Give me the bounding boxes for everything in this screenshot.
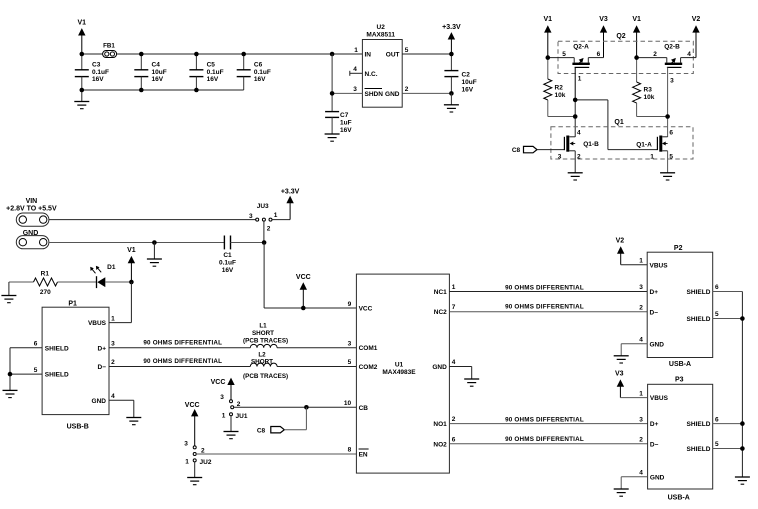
LED D1 <box>90 264 131 288</box>
svg-text:COM2: COM2 <box>359 364 378 371</box>
svg-text:U2: U2 <box>377 24 386 31</box>
resistor R1 270 <box>9 271 97 296</box>
ground under JU1 <box>224 432 239 439</box>
svg-text:D+: D+ <box>650 289 659 296</box>
svg-text:2: 2 <box>577 153 581 160</box>
power symbol V1 (Q2-B) <box>632 16 641 57</box>
svg-text:5: 5 <box>669 153 673 160</box>
junction dot JU3 pin2 node <box>262 240 267 245</box>
svg-text:0.1uF: 0.1uF <box>92 69 109 76</box>
svg-text:10uF: 10uF <box>152 69 167 76</box>
svg-text:SHIELD: SHIELD <box>45 345 69 352</box>
svg-text:NO2: NO2 <box>433 441 447 448</box>
svg-text:6: 6 <box>669 130 673 137</box>
svg-text:4: 4 <box>687 51 691 58</box>
junction dot R3 / Q2-B gate / Q1-A drain <box>665 114 670 137</box>
svg-text:2: 2 <box>639 436 643 443</box>
svg-text:4: 4 <box>353 66 357 73</box>
junction dot SHDN/C7 <box>330 91 335 96</box>
svg-text:D−: D− <box>650 441 659 448</box>
svg-text:4: 4 <box>577 130 581 137</box>
svg-text:2: 2 <box>201 447 205 454</box>
svg-text:CB: CB <box>359 405 369 412</box>
P3 pin 5 SHIELD wire <box>687 441 743 453</box>
svg-text:3: 3 <box>111 340 115 347</box>
svg-text:5: 5 <box>715 441 719 448</box>
svg-text:USB-B: USB-B <box>67 424 89 431</box>
dashed box Q1 <box>551 119 693 159</box>
wire: shield bus right <box>740 292 745 478</box>
svg-text:2: 2 <box>267 225 271 232</box>
wire: GND rail to C1 <box>49 242 225 244</box>
power symbol VCC (U1 supply) <box>296 274 311 308</box>
svg-text:C7: C7 <box>340 112 349 119</box>
connector P1 box <box>42 300 109 430</box>
svg-text:90 OHMS DIFFERENTIAL: 90 OHMS DIFFERENTIAL <box>143 358 222 365</box>
P1 pin 5 SHIELD wire <box>10 367 69 379</box>
svg-text:5: 5 <box>348 359 352 366</box>
P2 pin 6 SHIELD wire <box>687 284 743 296</box>
svg-text:3: 3 <box>353 86 357 93</box>
svg-text:4: 4 <box>452 359 456 366</box>
svg-text:VCC: VCC <box>185 402 200 409</box>
svg-text:NO1: NO1 <box>433 421 447 428</box>
junction dots OUT node <box>449 52 454 96</box>
svg-text:2: 2 <box>405 86 409 93</box>
svg-text:0.1uF: 0.1uF <box>219 259 236 266</box>
svg-text:+2.8V TO +5.5V: +2.8V TO +5.5V <box>6 206 57 213</box>
svg-text:SHORT: SHORT <box>251 358 273 365</box>
svg-text:+3.3V: +3.3V <box>442 24 461 31</box>
wire: VCC feed down and right to U1 pin 9 <box>264 243 356 311</box>
svg-text:V3: V3 <box>615 371 624 378</box>
svg-text:V1: V1 <box>127 247 136 254</box>
svg-text:VBUS: VBUS <box>650 395 669 402</box>
ferrite bead FB1 <box>103 43 117 58</box>
power symbol V2 <box>692 16 701 57</box>
U1 pin 2 NO1 <box>433 416 455 428</box>
P2 pin 5 SHIELD wire <box>687 311 743 323</box>
svg-text:6: 6 <box>452 437 456 444</box>
svg-text:VCC: VCC <box>211 379 226 386</box>
svg-text:10: 10 <box>344 400 352 407</box>
svg-text:P2: P2 <box>674 245 683 252</box>
svg-text:270: 270 <box>40 289 51 296</box>
transistor Q2-A <box>548 44 604 100</box>
power symbol VCC (JU2) <box>185 402 200 446</box>
ground shield bus <box>735 477 750 484</box>
svg-text:MAX4983E: MAX4983E <box>382 369 416 376</box>
U1 pin 10 CB <box>344 400 368 412</box>
input flag C8 (bottom) <box>257 407 307 434</box>
svg-text:D−: D− <box>98 364 107 371</box>
input flag C8 (top right) <box>512 146 565 154</box>
svg-text:SHIELD: SHIELD <box>687 446 711 453</box>
svg-text:5: 5 <box>405 47 409 54</box>
svg-text:JU3: JU3 <box>257 203 269 210</box>
wire NO2 90 ohms differential <box>449 436 647 444</box>
svg-text:1: 1 <box>578 76 582 83</box>
svg-text:1: 1 <box>185 459 189 466</box>
svg-text:V2: V2 <box>692 16 701 23</box>
resistor R2 10k <box>544 58 575 117</box>
svg-text:C8: C8 <box>512 147 521 154</box>
svg-text:C4: C4 <box>152 62 161 69</box>
ground under Q1-B <box>568 173 583 180</box>
power symbol V2 (P2) <box>616 238 625 265</box>
capacitor C5 <box>189 54 223 90</box>
svg-text:V1: V1 <box>544 16 553 23</box>
svg-text:D−: D− <box>650 309 659 316</box>
svg-text:16V: 16V <box>222 267 234 274</box>
power symbol V3 <box>599 16 608 57</box>
svg-text:6: 6 <box>597 51 601 58</box>
connector P3 box <box>648 377 713 502</box>
svg-text:JU1: JU1 <box>236 413 248 420</box>
transistor Q2-B <box>637 44 696 117</box>
svg-text:D1: D1 <box>107 264 116 271</box>
svg-text:8: 8 <box>348 447 352 454</box>
svg-text:90 OHMS DIFFERENTIAL: 90 OHMS DIFFERENTIAL <box>505 436 584 443</box>
svg-text:C2: C2 <box>462 72 471 79</box>
P1 pin 3 D+ <box>98 340 116 352</box>
svg-text:VIN: VIN <box>26 198 38 205</box>
wire: Q2-A gate to Q1-A gate cross-coupling <box>575 100 657 150</box>
svg-text:GND: GND <box>650 341 665 348</box>
junction dot D1/V1/VBUS <box>129 280 134 323</box>
svg-text:1: 1 <box>111 315 115 322</box>
svg-text:3: 3 <box>639 416 643 423</box>
svg-text:16V: 16V <box>340 127 352 134</box>
svg-text:R3: R3 <box>644 87 653 94</box>
power symbol V3 (P3) <box>615 371 624 398</box>
capacitor C4 <box>134 54 166 90</box>
P1 pin 4 GND wire + ground <box>92 393 142 425</box>
P2 pin 4 GND wire + ground <box>614 336 665 363</box>
svg-text:NC2: NC2 <box>434 309 447 316</box>
svg-text:JU2: JU2 <box>200 459 212 466</box>
op-amp U2 MAX8511 box <box>362 24 402 107</box>
U1 pin 7 NC2 <box>434 304 456 316</box>
junction dots V1 rails <box>546 55 639 60</box>
wire: Q2-A gate node down to Q1-B drain <box>573 98 578 137</box>
svg-text:U1: U1 <box>395 362 404 369</box>
U1 pin 4 GND wire + ground <box>432 359 479 386</box>
svg-text:VBUS: VBUS <box>650 262 669 269</box>
U1 pin 3 COM1 <box>348 340 378 352</box>
P3 pin 2 D- <box>639 436 658 448</box>
power symbol V1 (Q2-A) <box>544 16 553 57</box>
P2 pin 1 VBUS wire <box>621 257 669 269</box>
ground left of R1 <box>1 282 16 303</box>
svg-text:6: 6 <box>34 340 38 347</box>
svg-text:7: 7 <box>452 304 456 311</box>
svg-text:5: 5 <box>715 311 719 318</box>
svg-text:90 OHMS DIFFERENTIAL: 90 OHMS DIFFERENTIAL <box>143 339 222 346</box>
wire NC1 90 ohms differential <box>449 284 647 291</box>
svg-text:Q2: Q2 <box>616 33 625 40</box>
inductor L2 <box>243 351 288 380</box>
svg-text:3: 3 <box>670 78 674 85</box>
svg-text:1: 1 <box>222 413 226 420</box>
wire+ground P1 shields <box>3 348 18 398</box>
svg-text:2: 2 <box>653 51 657 58</box>
P3 pin 4 GND wire + ground <box>614 470 665 497</box>
transistor Q1-A <box>636 130 673 173</box>
svg-text:90 OHMS DIFFERENTIAL: 90 OHMS DIFFERENTIAL <box>505 304 584 311</box>
svg-text:V1: V1 <box>78 19 87 26</box>
svg-text:D+: D+ <box>650 421 659 428</box>
IC U1 MAX4983E box <box>356 274 449 473</box>
svg-text:6: 6 <box>715 284 719 291</box>
svg-text:2: 2 <box>639 304 643 311</box>
svg-text:FB1: FB1 <box>103 43 115 50</box>
svg-text:L2: L2 <box>258 351 266 358</box>
svg-text:3: 3 <box>558 153 562 160</box>
capacitor C1 <box>219 236 264 274</box>
P2 pin 2 D- <box>639 304 658 316</box>
wire NO1 90 ohms differential <box>449 416 647 423</box>
svg-text:USB-A: USB-A <box>668 494 690 501</box>
svg-text:1: 1 <box>452 284 456 291</box>
svg-text:SHIELD: SHIELD <box>45 372 69 379</box>
ground under C2 <box>444 93 459 112</box>
junction dots bottom bus <box>80 88 199 93</box>
jumper JU1 <box>220 394 248 432</box>
terminal VIN <box>6 198 57 226</box>
U1 pin 9 VCC <box>348 301 373 313</box>
svg-text:V2: V2 <box>616 238 625 245</box>
svg-text:N.C.: N.C. <box>365 71 378 78</box>
svg-text:C3: C3 <box>92 62 101 69</box>
wire: JU1 pin2 to U1 CB <box>234 405 357 410</box>
svg-text:IN: IN <box>365 52 372 59</box>
svg-text:2: 2 <box>111 359 115 366</box>
P3 pin 3 D+ <box>639 416 658 428</box>
svg-text:3: 3 <box>639 284 643 291</box>
svg-text:10k: 10k <box>644 94 655 101</box>
svg-text:3: 3 <box>348 340 352 347</box>
svg-text:0.1uF: 0.1uF <box>254 69 271 76</box>
svg-text:9: 9 <box>348 301 352 308</box>
power symbol +3.3V (JU3) <box>281 188 300 219</box>
wire D+ 90 ohms differential (COM1) <box>109 339 356 347</box>
ground under Q1-A <box>660 173 675 180</box>
svg-text:1uF: 1uF <box>340 120 352 127</box>
svg-text:90 OHMS DIFFERENTIAL: 90 OHMS DIFFERENTIAL <box>505 284 584 291</box>
inductor L1 <box>243 323 288 348</box>
svg-text:10k: 10k <box>555 92 566 99</box>
svg-text:90 OHMS DIFFERENTIAL: 90 OHMS DIFFERENTIAL <box>505 416 584 423</box>
svg-text:SHIELD: SHIELD <box>687 289 711 296</box>
svg-text:10uF: 10uF <box>462 79 477 86</box>
svg-text:1: 1 <box>354 47 358 54</box>
U2 pin 1 IN <box>354 47 371 59</box>
svg-text:5: 5 <box>562 51 566 58</box>
capacitor C2 <box>444 54 476 94</box>
dashed box Q2 <box>558 33 693 74</box>
power symbol VCC (JU1) <box>211 378 235 400</box>
svg-text:+3.3V: +3.3V <box>281 188 300 195</box>
svg-text:L1: L1 <box>259 323 267 330</box>
svg-text:Q1-B: Q1-B <box>583 141 599 148</box>
svg-text:COM1: COM1 <box>359 345 378 352</box>
svg-text:SHDN: SHDN <box>365 91 384 98</box>
U1 pin 5 COM2 <box>348 359 378 371</box>
ground under C7 <box>325 134 340 141</box>
svg-text:OUT: OUT <box>386 52 400 59</box>
svg-text:VBUS: VBUS <box>88 320 107 327</box>
svg-text:Q1: Q1 <box>614 119 623 126</box>
svg-text:1: 1 <box>274 212 278 219</box>
svg-text:4: 4 <box>639 336 643 343</box>
svg-text:3: 3 <box>249 213 253 220</box>
capacitor C7 <box>325 54 352 134</box>
capacitor C3 <box>75 54 109 90</box>
svg-text:C6: C6 <box>254 62 263 69</box>
wire: bottom cap bus <box>82 89 244 91</box>
svg-text:GND: GND <box>432 364 447 371</box>
U1 pin 1 NC1 <box>434 284 456 296</box>
connector P2 box <box>647 245 713 368</box>
svg-text:MAX8511: MAX8511 <box>366 32 395 39</box>
U2 pin 3 SHDN <box>332 86 383 98</box>
P1 pin 6 SHIELD wire <box>10 340 69 352</box>
wire D- 90 ohms differential (COM2) <box>109 358 356 366</box>
power symbol +3.3V (U2 out) <box>442 24 461 54</box>
U2 pin 2 GND wire <box>385 86 451 98</box>
svg-text:GND: GND <box>92 398 107 405</box>
svg-text:P3: P3 <box>675 377 684 384</box>
ground under JU2 <box>187 478 202 485</box>
svg-text:Q2-B: Q2-B <box>664 44 680 51</box>
P3 pin 1 VBUS wire <box>620 390 668 402</box>
svg-text:USB-A: USB-A <box>669 361 691 368</box>
svg-text:3: 3 <box>220 394 224 401</box>
wire: VIN rail to JU3 <box>49 219 256 221</box>
U1 pin 6 NO2 <box>433 437 455 449</box>
svg-text:V1: V1 <box>632 16 641 23</box>
svg-text:16V: 16V <box>462 87 474 94</box>
svg-text:SHIELD: SHIELD <box>687 421 711 428</box>
svg-text:GND: GND <box>650 474 665 481</box>
svg-text:4: 4 <box>639 470 643 477</box>
U2 pin 5 OUT wire <box>386 47 452 59</box>
terminal GND <box>16 230 49 249</box>
ground on GND rail <box>147 240 162 266</box>
svg-text:6: 6 <box>715 416 719 423</box>
svg-text:1: 1 <box>650 153 654 160</box>
svg-text:SHORT: SHORT <box>252 330 274 337</box>
svg-text:Q1-A: Q1-A <box>636 142 652 149</box>
power symbol V1 (top-left) <box>78 19 87 54</box>
svg-text:4: 4 <box>111 393 115 400</box>
power symbol V1 (over D1) <box>127 247 136 282</box>
svg-text:R1: R1 <box>41 271 50 278</box>
U1 pin 8 EN <box>348 447 369 459</box>
jumper JU2 <box>184 441 212 478</box>
svg-text:(PCB TRACES): (PCB TRACES) <box>243 373 288 380</box>
svg-text:V3: V3 <box>599 16 608 23</box>
svg-text:VCC: VCC <box>296 274 311 281</box>
svg-text:SHIELD: SHIELD <box>687 316 711 323</box>
svg-text:C1: C1 <box>223 252 232 259</box>
svg-text:0.1uF: 0.1uF <box>207 69 224 76</box>
svg-text:NC1: NC1 <box>434 289 447 296</box>
svg-text:2: 2 <box>452 416 456 423</box>
wire NC2 90 ohms differential <box>449 304 647 312</box>
svg-text:D+: D+ <box>98 345 107 352</box>
svg-text:16V: 16V <box>207 76 219 83</box>
transistor Q1-B <box>558 130 599 173</box>
jumper JU3 <box>249 203 290 243</box>
svg-text:VCC: VCC <box>359 306 373 313</box>
wire: top V1 bus <box>82 53 363 55</box>
svg-text:GND: GND <box>385 91 400 98</box>
resistor R3 10k <box>633 58 668 117</box>
ground under C3 <box>74 90 89 109</box>
svg-text:EN: EN <box>359 452 368 459</box>
svg-text:P1: P1 <box>68 300 77 307</box>
capacitor C6 <box>237 54 271 90</box>
P2 pin 3 D+ <box>639 284 658 296</box>
svg-text:(PCB TRACES): (PCB TRACES) <box>243 338 288 345</box>
U2 pin 4 N.C. stub <box>350 66 378 78</box>
svg-text:C8: C8 <box>257 427 266 434</box>
svg-text:16V: 16V <box>92 76 104 83</box>
svg-text:3: 3 <box>184 441 188 448</box>
junction dots top bus <box>80 52 335 57</box>
svg-text:R2: R2 <box>555 85 564 92</box>
P1 pin 2 D- <box>98 359 116 371</box>
svg-text:16V: 16V <box>254 76 266 83</box>
wire: JU2 pin2 to U1 EN <box>196 453 356 455</box>
svg-text:1: 1 <box>639 390 643 397</box>
svg-text:Q2-A: Q2-A <box>573 44 589 51</box>
P3 pin 6 SHIELD wire <box>687 416 743 428</box>
svg-text:5: 5 <box>34 367 38 374</box>
svg-text:16V: 16V <box>152 76 164 83</box>
svg-text:1: 1 <box>639 257 643 264</box>
svg-text:C5: C5 <box>207 62 216 69</box>
P1 pin 1 VBUS wire <box>88 315 131 327</box>
